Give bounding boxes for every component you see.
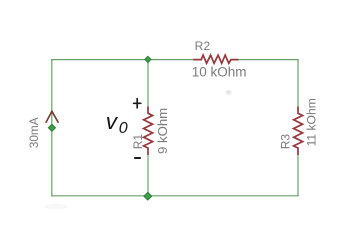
svg-text:v: v — [106, 109, 119, 134]
svg-text:R2: R2 — [195, 39, 211, 53]
svg-text:10 kOhm: 10 kOhm — [192, 64, 247, 79]
svg-text:R3: R3 — [279, 134, 293, 150]
svg-text:R1: R1 — [131, 134, 145, 150]
svg-text:9 kOhm: 9 kOhm — [155, 108, 170, 154]
svg-text:0: 0 — [119, 120, 128, 137]
svg-text:30mA: 30mA — [27, 117, 41, 148]
svg-text:11 kOhm: 11 kOhm — [305, 98, 319, 146]
